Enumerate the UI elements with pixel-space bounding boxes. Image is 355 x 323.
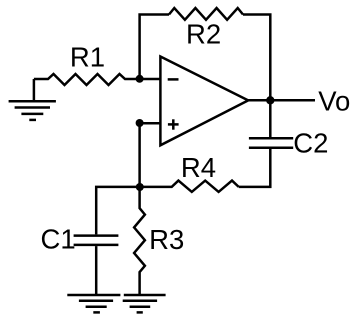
wire: inverting input stub xyxy=(140,78,161,81)
node C (bottom junction) xyxy=(136,183,144,191)
capacitor C1 xyxy=(74,236,119,245)
wire: R2 down to output node xyxy=(243,15,270,101)
svg-text:R4: R4 xyxy=(181,152,216,183)
wire: node C left to C1 xyxy=(96,187,139,235)
wire: non-inverting input stub xyxy=(140,122,161,125)
ground G1 (left, input ground) xyxy=(9,79,56,120)
svg-text:C1: C1 xyxy=(41,223,76,254)
ground G3 (under R3) xyxy=(123,295,166,312)
wire: op-amp output to Vo xyxy=(248,99,315,102)
svg-text:Vo: Vo xyxy=(318,86,350,117)
wire: node B down to node C xyxy=(138,123,141,187)
svg-text:R2: R2 xyxy=(186,19,221,50)
svg-text:C2: C2 xyxy=(293,128,328,159)
node Vo (output junction) xyxy=(266,96,274,104)
node A (inverting input junction) xyxy=(136,75,144,83)
resistor R3 xyxy=(134,187,145,295)
svg-text:R1: R1 xyxy=(70,41,105,72)
resistor R1 xyxy=(34,74,140,85)
resistor R2 xyxy=(169,8,243,20)
op-amp U1 xyxy=(160,57,248,146)
ground G2 (under C1) xyxy=(67,295,120,312)
wire: node A up to R2 xyxy=(140,15,169,80)
svg-text:R3: R3 xyxy=(149,224,184,255)
wire: output node down to C2 xyxy=(269,100,272,137)
node B (non-inverting input junction) xyxy=(136,119,144,127)
resistor R4 xyxy=(140,181,239,192)
wire: C1 down to ground xyxy=(95,246,98,295)
capacitor C2 xyxy=(249,138,293,148)
wire: C2 down and left to R4 xyxy=(239,149,271,187)
